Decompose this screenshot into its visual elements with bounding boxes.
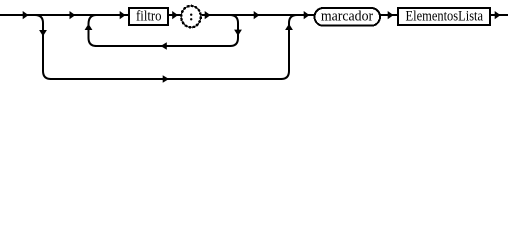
arrow right A1 — [23, 11, 29, 19]
wire filtro to ellipse — [168, 14, 181, 16]
arrow down on bypass branch — [39, 30, 47, 36]
arrow up on inner loop merge — [85, 24, 93, 30]
box ElementosLista — [398, 8, 490, 25]
svg-text:marcador: marcador — [321, 9, 374, 25]
arrow right A6 — [254, 11, 260, 19]
wire ellipse to marcador — [202, 14, 315, 16]
wire inner loop merge up at x=88.5 — [89, 15, 97, 46]
arrow right A9 — [495, 11, 501, 19]
wire inner loop branch down at x=238 — [230, 15, 238, 46]
arrow right A3 — [120, 11, 126, 19]
arrow right A8 — [388, 11, 394, 19]
svg-text:ElementosLista: ElementosLista — [406, 9, 484, 25]
rounded box marcador — [315, 8, 381, 26]
arrow right A5 — [205, 11, 211, 19]
wire bypass bottom line — [50, 78, 282, 80]
wire main line start to filtro — [0, 14, 129, 16]
arrow right A2 — [70, 11, 76, 19]
svg-text:filtro: filtro — [136, 9, 162, 25]
arrow up on bypass merge — [285, 24, 293, 30]
wire inner loop bottom line — [95, 45, 231, 47]
wire marcador to ElementosLista — [380, 14, 398, 16]
box filtro — [129, 8, 168, 25]
label ":" — [190, 14, 192, 21]
wire branch down to bypass at x=43 — [35, 15, 51, 79]
arrow right A7 — [304, 11, 310, 19]
terminal ellipse ":" — [181, 6, 201, 27]
arrow left on inner loop — [161, 42, 167, 50]
arrow down on inner loop branch — [234, 30, 242, 36]
arrow right A4 — [172, 11, 178, 19]
arrow right on bypass — [163, 75, 169, 83]
wire ElementosLista to end — [489, 14, 508, 16]
wire bypass merge up at x=289 — [281, 15, 297, 79]
